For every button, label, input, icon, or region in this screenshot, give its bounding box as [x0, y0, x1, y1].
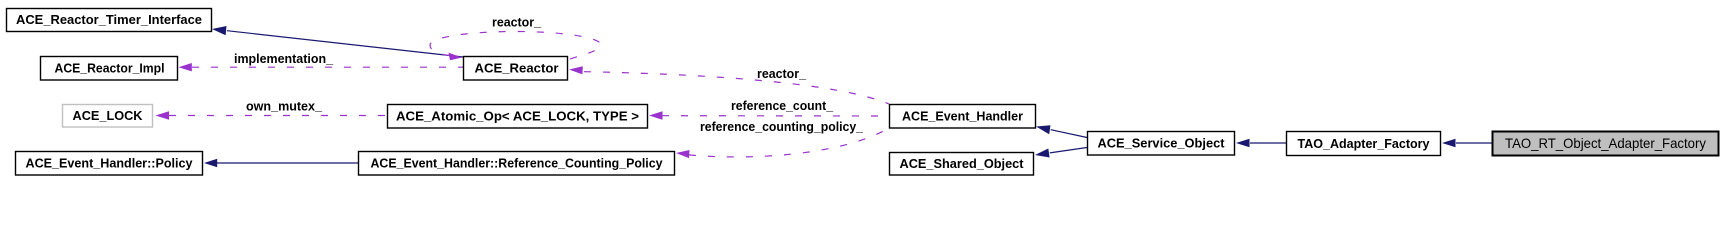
- class box ACE_Atomic_Op< ACE_LOCK, TYPE >: [388, 105, 648, 129]
- svg-text:ACE_LOCK: ACE_LOCK: [73, 108, 144, 123]
- svg-text:ACE_Shared_Object: ACE_Shared_Object: [900, 156, 1025, 171]
- svg-text:ACE_Event_Handler: ACE_Event_Handler: [902, 109, 1023, 124]
- class box TAO_RT_Object_Adapter_Factory highlighted current node: [1493, 132, 1719, 156]
- wire dashed edge reactor_ ACE_Event_Handler to ACE_Reactor: [569, 66, 889, 104]
- svg-text:ACE_Event_Handler::Reference_C: ACE_Event_Handler::Reference_Counting_Po…: [371, 156, 664, 171]
- wire self-loop reactor_ on ACE_Reactor: [430, 32, 601, 61]
- class box ACE_Event_Handler::Policy: [16, 152, 203, 176]
- svg-text:reactor_: reactor_: [492, 16, 542, 30]
- class box TAO_Adapter_Factory: [1287, 132, 1441, 156]
- svg-text:TAO_RT_Object_Adapter_Factory: TAO_RT_Object_Adapter_Factory: [1505, 135, 1706, 151]
- svg-text:implementation_: implementation_: [234, 52, 334, 66]
- svg-text:ACE_Atomic_Op< ACE_LOCK, TYPE: ACE_Atomic_Op< ACE_LOCK, TYPE >: [396, 109, 639, 124]
- svg-text:ACE_Event_Handler::Policy: ACE_Event_Handler::Policy: [26, 156, 194, 171]
- class box ACE_Reactor: [464, 57, 568, 81]
- wire inheritance edge ACE_Reactor to ACE_Reactor_Timer_Interface: [212, 26, 463, 57]
- svg-text:ACE_Service_Object: ACE_Service_Object: [1098, 136, 1226, 151]
- wire inheritance edge Reference_Counting_Policy to Policy: [204, 159, 358, 168]
- wire dashed edge own_mutex_ ACE_Atomic_Op to ACE_LOCK: [156, 111, 388, 119]
- wire inheritance edge TAO_Adapter_Factory to ACE_Service_Object: [1236, 139, 1286, 147]
- class box ACE_Reactor_Impl: [41, 57, 178, 81]
- wire dashed edge implementation_ ACE_Reactor to ACE_Reactor_Impl: [179, 63, 464, 71]
- class box ACE_Service_Object: [1088, 132, 1235, 156]
- class box ACE_Shared_Object: [890, 153, 1034, 176]
- svg-text:reactor_: reactor_: [757, 67, 807, 81]
- class box ACE_Event_Handler::Reference_Counting_Policy: [359, 152, 675, 176]
- svg-text:ACE_Reactor_Timer_Interface: ACE_Reactor_Timer_Interface: [16, 12, 202, 27]
- wire inheritance edge ACE_Service_Object to ACE_Event_Handler: [1036, 125, 1087, 137]
- svg-text:ACE_Reactor: ACE_Reactor: [475, 61, 559, 76]
- class box ACE_Event_Handler: [890, 105, 1036, 129]
- svg-text:own_mutex_: own_mutex_: [246, 99, 323, 113]
- wire dashed edge reference_count_ ACE_Event_Handler to ACE_Atomic_Op: [649, 111, 889, 119]
- svg-text:ACE_Reactor_Impl: ACE_Reactor_Impl: [55, 61, 165, 76]
- wire inheritance edge ACE_Service_Object to ACE_Shared_Object: [1035, 148, 1087, 158]
- svg-text:reference_counting_policy_: reference_counting_policy_: [700, 120, 864, 134]
- class box ACE_LOCK: [63, 105, 153, 128]
- svg-text:TAO_Adapter_Factory: TAO_Adapter_Factory: [1298, 136, 1431, 151]
- svg-text:reference_count_: reference_count_: [731, 99, 834, 113]
- wire dashed edge reference_counting_policy_ ACE_Event_Handler to Reference_Counting_Policy: [676, 128, 889, 158]
- wire inheritance edge TAO_RT_Object_Adapter_Factory to TAO_Adapter_Factory: [1442, 139, 1492, 147]
- class box ACE_Reactor_Timer_Interface: [7, 9, 212, 32]
